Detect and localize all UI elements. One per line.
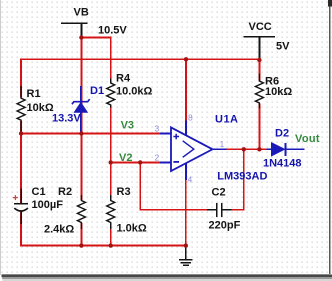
op-amp U1A triangle	[171, 127, 213, 171]
power symbol VCC	[244, 37, 276, 59]
svg-text:13.3V: 13.3V	[52, 113, 81, 125]
svg-text:V2: V2	[119, 152, 132, 164]
resistor R2	[76, 200, 86, 223]
junction ground	[184, 243, 188, 247]
wire: V2 down to C2 left	[140, 162, 207, 209]
wire: V3 net horizontal to op-amp + input	[21, 133, 162, 135]
op-amp comparator symbol	[183, 141, 194, 158]
svg-text:R1: R1	[27, 88, 41, 100]
wire: VB down through D1 and R2 to bottom bus	[80, 38, 82, 246]
junction V3 / D1-R2	[79, 131, 83, 135]
resistor R6	[254, 80, 264, 103]
svg-text:D2: D2	[275, 127, 289, 139]
svg-text:R4: R4	[116, 72, 131, 84]
svg-text:10.5V: 10.5V	[98, 24, 127, 36]
op-amp pin 8 stub	[185, 121, 187, 137]
diode D2	[272, 143, 285, 156]
resistor R1	[16, 98, 26, 121]
svg-text:1.0kΩ: 1.0kΩ	[117, 222, 147, 234]
wire: op-amp output to D2	[213, 148, 267, 150]
junction R3 bottom	[109, 243, 113, 247]
svg-text:8: 8	[188, 112, 193, 122]
svg-text:C2: C2	[212, 187, 226, 199]
svg-text:3: 3	[155, 123, 160, 133]
wire: left bus + top VCC bus	[21, 59, 259, 133]
junction output / R6	[257, 147, 261, 151]
svg-text:U1A: U1A	[215, 114, 239, 126]
svg-text:V3: V3	[121, 120, 134, 132]
zener diode D1	[80, 86, 82, 133]
svg-text:10kΩ: 10kΩ	[27, 102, 54, 114]
op-amp minus input mark	[173, 161, 179, 163]
svg-text:4: 4	[188, 175, 193, 185]
junction pin8 at top bus	[184, 57, 188, 61]
svg-text:R2: R2	[58, 186, 72, 198]
op-amp output pin stub	[213, 148, 227, 150]
svg-text:R3: R3	[117, 186, 131, 198]
op-amp input pin stubs	[160, 134, 171, 163]
svg-text:VCC: VCC	[249, 21, 272, 33]
op-amp pin 4 stub	[185, 163, 187, 180]
svg-text:1N4148: 1N4148	[263, 157, 302, 169]
capacitor C1 (polarized)	[14, 189, 28, 225]
wire: VB right branch down through R4 and R3 to bottom bus	[81, 38, 110, 246]
svg-text:Vout: Vout	[295, 133, 320, 145]
capacitor C1 plus sign	[13, 195, 18, 200]
junction VB	[79, 35, 83, 39]
svg-text:D1: D1	[90, 85, 104, 97]
svg-text:VB: VB	[74, 7, 89, 19]
resistor R3	[106, 200, 116, 223]
junction V3 left	[19, 131, 23, 135]
ground	[179, 246, 193, 266]
svg-text:5V: 5V	[276, 40, 290, 52]
svg-text:C1: C1	[32, 186, 46, 198]
junction VCC	[257, 58, 261, 62]
wire: VCC down through R6 to output node	[258, 59, 260, 149]
svg-text:100µF: 100µF	[32, 199, 64, 211]
wire: V2 net horizontal to op-amp - input	[111, 161, 162, 163]
junction R2 bottom	[79, 243, 83, 247]
junction V2 / C2	[138, 160, 142, 164]
junction output / C2	[242, 147, 246, 151]
resistor R4	[106, 82, 116, 105]
power symbol VB	[61, 23, 88, 36]
svg-text:10.0kΩ: 10.0kΩ	[116, 86, 153, 98]
capacitor C2	[207, 203, 231, 217]
op-amp plus input mark	[173, 134, 179, 140]
wire: bottom ground bus	[21, 211, 186, 246]
svg-text:2: 2	[155, 152, 160, 162]
junction V2 / R4-R3	[109, 160, 113, 164]
wire: left bus lower (to C1)	[20, 134, 22, 204]
svg-text:LM393AD: LM393AD	[217, 171, 267, 183]
svg-text:220pF: 220pF	[209, 220, 241, 232]
svg-text:10kΩ: 10kΩ	[265, 86, 292, 98]
svg-text:2.4kΩ: 2.4kΩ	[44, 224, 74, 236]
svg-text:1: 1	[220, 139, 225, 149]
wire: output down to C2 right	[231, 149, 244, 209]
wire: top bus down to op-amp pin 8	[185, 59, 187, 121]
wire: op-amp pin 4 down to ground bus	[185, 179, 187, 246]
